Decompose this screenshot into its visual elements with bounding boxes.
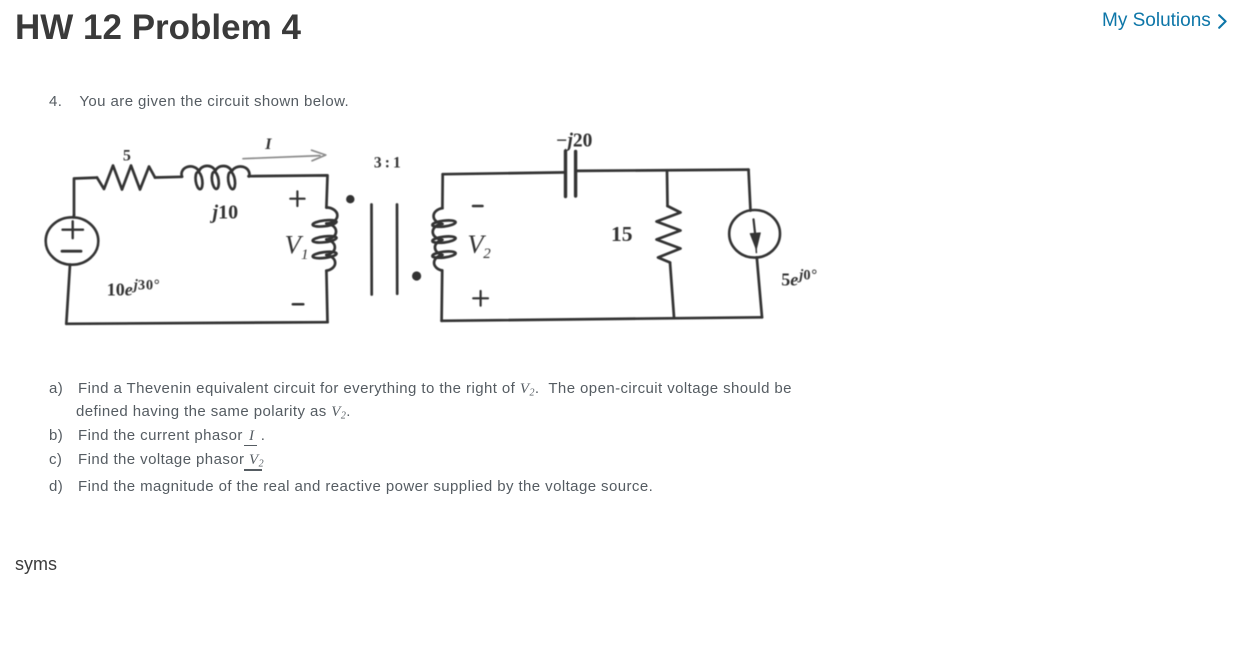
svg-text:3 : 1: 3 : 1 xyxy=(374,155,401,172)
wire: primary winding to bottom wire xyxy=(326,271,327,323)
value label 5 xyxy=(123,148,131,165)
source label 5e^j0 xyxy=(781,268,818,290)
capacitor -j20 plates xyxy=(566,151,576,197)
polarity minus mark V2 xyxy=(473,205,483,208)
wire: capacitor to top-right corner xyxy=(576,170,749,171)
wire: right loop bottom xyxy=(442,317,762,321)
resistor 15 xyxy=(657,206,681,263)
transformer T primary winding xyxy=(312,208,337,271)
wire: resistor to inductor xyxy=(155,175,182,178)
node: resistor 15 top junction xyxy=(666,171,669,206)
wire: secondary winding to bottom wire xyxy=(440,271,443,321)
source label 10e^j30 xyxy=(107,278,161,300)
my solutions link xyxy=(1102,11,1211,30)
current arrow I (gray) xyxy=(243,150,326,161)
wire: resistor 15 bottom lead xyxy=(670,263,674,318)
polarity plus mark V2 xyxy=(473,291,488,306)
svg-text:I: I xyxy=(264,136,272,153)
page title xyxy=(15,10,301,45)
value label -j20 xyxy=(556,131,593,152)
intro line xyxy=(49,94,349,109)
underline for phasor V2 (item c) xyxy=(244,469,262,470)
transformer secondary winding xyxy=(432,208,456,270)
wire: right loop top left segment to capacitor xyxy=(443,172,566,174)
svg-text:15: 15 xyxy=(611,222,633,246)
voltage label V2 xyxy=(467,229,491,262)
chevron icon xyxy=(1218,14,1228,30)
value label 15 xyxy=(611,222,633,246)
svg-text:j10: j10 xyxy=(210,201,239,223)
svg-text:−j20: −j20 xyxy=(556,131,593,152)
current source 5e^j0 circle xyxy=(729,210,780,258)
svg-text:1: 1 xyxy=(301,247,309,263)
svg-text:10ej30°: 10ej30° xyxy=(107,278,161,300)
wire: voltage source to bottom-left corner xyxy=(66,265,70,324)
polarity minus mark V1 xyxy=(293,303,304,306)
current label I xyxy=(264,136,272,153)
wire: right loop left vertical top xyxy=(441,174,444,208)
underline for phasor I (item b) xyxy=(244,445,257,446)
svg-text:5: 5 xyxy=(123,148,131,165)
transformer secondary dot xyxy=(412,271,421,280)
value label j10 xyxy=(210,201,239,223)
svg-text:2: 2 xyxy=(483,246,491,262)
inductor j10 xyxy=(182,166,250,190)
voltage source 10e^j30 circle xyxy=(46,217,99,264)
syms label xyxy=(15,555,57,573)
wire: voltage source top lead xyxy=(72,215,75,217)
wire: left loop bottom xyxy=(66,322,327,324)
voltage label V1 xyxy=(285,230,309,263)
transformer primary dot xyxy=(346,195,354,203)
current source arrow xyxy=(750,219,760,252)
transformer core lines xyxy=(372,205,398,295)
voltage source minus mark xyxy=(62,250,81,253)
wire: top-right corner down to current source xyxy=(749,170,751,211)
wire: inductor to top-right corner of left loop xyxy=(249,175,328,207)
question list xyxy=(49,381,792,399)
svg-text:5ej0°: 5ej0° xyxy=(781,268,818,290)
ratio label 3:1 xyxy=(374,155,401,172)
polarity plus mark V1 xyxy=(290,191,304,206)
wire: current source to bottom-right corner xyxy=(757,257,762,317)
voltage source plus mark xyxy=(63,221,84,238)
wire: left loop top-left corner to resistor xyxy=(74,178,97,215)
resistor 5 xyxy=(97,166,155,190)
